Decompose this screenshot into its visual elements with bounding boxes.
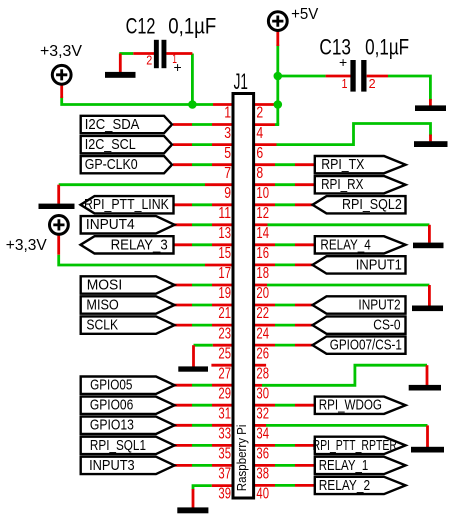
svg-text:CS-0: CS-0 bbox=[373, 316, 400, 333]
svg-text:6: 6 bbox=[256, 145, 263, 162]
svg-text:INPUT2: INPUT2 bbox=[358, 296, 400, 313]
svg-text:13: 13 bbox=[218, 225, 231, 242]
svg-text:+3,3V: +3,3V bbox=[40, 43, 82, 60]
svg-text:0,1µF: 0,1µF bbox=[365, 35, 409, 60]
svg-text:INPUT4: INPUT4 bbox=[86, 216, 135, 233]
svg-text:39: 39 bbox=[218, 486, 231, 503]
svg-text:22: 22 bbox=[256, 305, 269, 322]
svg-text:GPIO05: GPIO05 bbox=[90, 377, 132, 394]
svg-text:RELAY_2: RELAY_2 bbox=[319, 477, 370, 494]
svg-text:15: 15 bbox=[218, 245, 231, 262]
svg-text:+: + bbox=[339, 54, 347, 70]
svg-text:I2C_SCL: I2C_SCL bbox=[85, 136, 136, 153]
svg-text:RPI_SQL1: RPI_SQL1 bbox=[90, 437, 146, 454]
svg-text:17: 17 bbox=[218, 265, 231, 282]
svg-text:INPUT3: INPUT3 bbox=[89, 457, 135, 474]
svg-text:26: 26 bbox=[256, 345, 269, 362]
svg-text:30: 30 bbox=[256, 385, 269, 402]
svg-text:21: 21 bbox=[218, 305, 231, 322]
svg-text:RPI_PTT_LINK: RPI_PTT_LINK bbox=[84, 196, 169, 213]
svg-text:28: 28 bbox=[256, 365, 269, 382]
svg-text:2: 2 bbox=[369, 77, 376, 91]
svg-text:GP-CLK0: GP-CLK0 bbox=[85, 156, 138, 173]
svg-text:16: 16 bbox=[256, 245, 269, 262]
svg-text:RPI_TX: RPI_TX bbox=[321, 156, 364, 173]
svg-text:33: 33 bbox=[218, 426, 231, 443]
svg-text:23: 23 bbox=[218, 325, 231, 342]
svg-text:I2C_SDA: I2C_SDA bbox=[85, 116, 140, 133]
svg-text:11: 11 bbox=[218, 205, 231, 222]
svg-text:Raspberry Pi: Raspberry Pi bbox=[235, 425, 249, 492]
svg-text:25: 25 bbox=[218, 345, 231, 362]
svg-text:7: 7 bbox=[224, 165, 231, 182]
svg-text:RPI_PTT_RPTER: RPI_PTT_RPTER bbox=[313, 437, 398, 454]
svg-text:40: 40 bbox=[256, 486, 269, 503]
svg-text:RPI_RX: RPI_RX bbox=[321, 176, 363, 193]
svg-text:32: 32 bbox=[256, 405, 269, 422]
svg-text:RPI_WDOG: RPI_WDOG bbox=[319, 397, 382, 414]
svg-text:+3,3V: +3,3V bbox=[6, 237, 47, 254]
svg-text:9: 9 bbox=[224, 185, 231, 202]
svg-text:0,1µF: 0,1µF bbox=[168, 13, 216, 38]
svg-text:RELAY_3: RELAY_3 bbox=[111, 236, 168, 253]
svg-text:5: 5 bbox=[224, 145, 231, 162]
svg-text:RELAY_1: RELAY_1 bbox=[319, 457, 369, 474]
svg-text:20: 20 bbox=[256, 285, 269, 302]
svg-text:J1: J1 bbox=[234, 69, 248, 94]
svg-text:12: 12 bbox=[256, 205, 269, 222]
svg-text:3: 3 bbox=[224, 125, 231, 142]
svg-text:+5V: +5V bbox=[291, 6, 319, 23]
svg-text:MOSI: MOSI bbox=[87, 276, 123, 293]
svg-text:34: 34 bbox=[256, 426, 269, 443]
svg-text:35: 35 bbox=[218, 446, 231, 463]
svg-text:GPIO06: GPIO06 bbox=[90, 397, 133, 414]
svg-text:2: 2 bbox=[256, 105, 263, 122]
svg-text:18: 18 bbox=[256, 265, 269, 282]
svg-text:10: 10 bbox=[256, 185, 269, 202]
svg-text:24: 24 bbox=[256, 325, 269, 342]
svg-text:36: 36 bbox=[256, 446, 269, 463]
svg-text:MISO: MISO bbox=[86, 296, 118, 313]
svg-text:38: 38 bbox=[256, 466, 269, 483]
svg-text:GPIO13: GPIO13 bbox=[90, 417, 134, 434]
svg-text:31: 31 bbox=[218, 405, 231, 422]
svg-text:37: 37 bbox=[218, 466, 231, 483]
svg-text:14: 14 bbox=[256, 225, 269, 242]
svg-text:27: 27 bbox=[218, 365, 231, 382]
svg-text:2: 2 bbox=[146, 53, 152, 67]
svg-text:1: 1 bbox=[342, 77, 348, 91]
svg-text:8: 8 bbox=[256, 165, 263, 182]
svg-text:4: 4 bbox=[256, 125, 263, 142]
svg-text:RPI_SQL2: RPI_SQL2 bbox=[342, 196, 402, 213]
svg-text:INPUT1: INPUT1 bbox=[356, 256, 402, 273]
svg-text:SCLK: SCLK bbox=[86, 316, 118, 333]
svg-text:19: 19 bbox=[218, 285, 231, 302]
svg-text:+: + bbox=[174, 59, 182, 75]
svg-text:1: 1 bbox=[224, 105, 231, 122]
svg-text:29: 29 bbox=[218, 385, 231, 402]
svg-text:RELAY_4: RELAY_4 bbox=[320, 236, 370, 253]
svg-text:GPIO07/CS-1: GPIO07/CS-1 bbox=[330, 337, 402, 354]
svg-text:C12: C12 bbox=[126, 13, 156, 38]
